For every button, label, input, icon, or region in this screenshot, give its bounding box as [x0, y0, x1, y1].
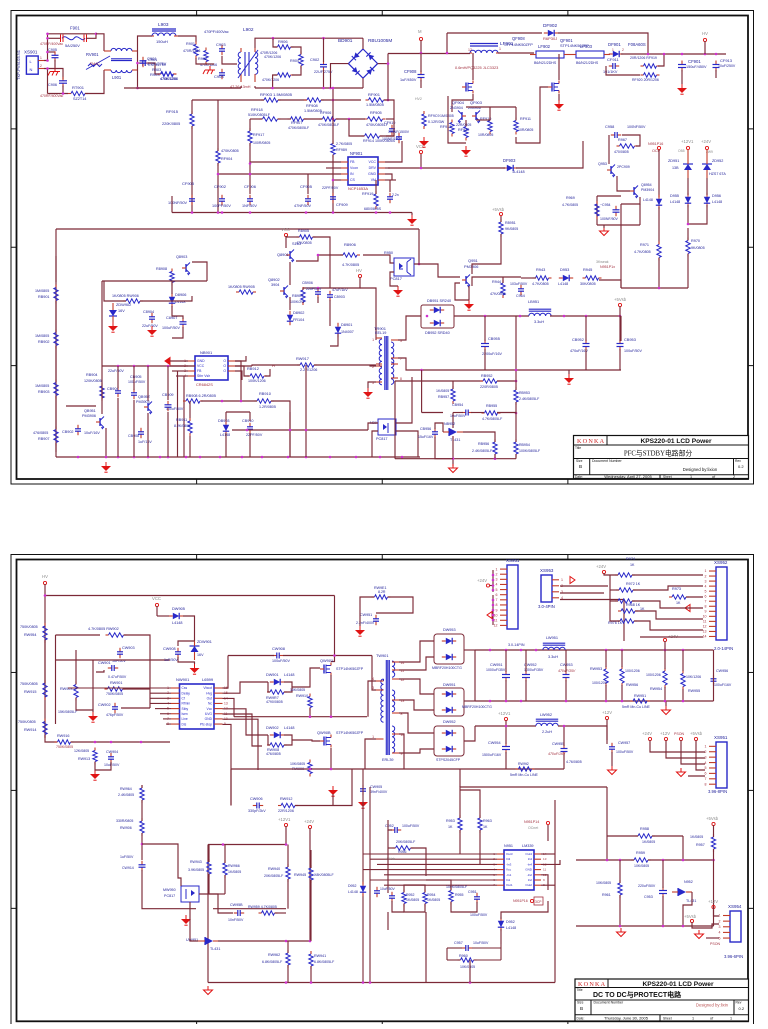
wire dw905 right	[183, 616, 195, 641]
wire xs953 row2	[560, 585, 608, 587]
wire d952 down	[500, 929, 502, 944]
ground driver	[461, 146, 471, 156]
capacitor CW951a	[373, 615, 379, 625]
svg-text:PM3906: PM3906	[464, 264, 478, 269]
power node +24V prot	[304, 819, 314, 829]
transistor QB952 sym	[144, 402, 152, 415]
svg-text:KONKA: KONKA	[577, 438, 605, 445]
wire rw956 up	[621, 650, 623, 667]
svg-text:2.2n: 2.2n	[392, 193, 399, 197]
svg-text:DW952: DW952	[443, 720, 456, 724]
IC NF901 NCP1653A	[348, 157, 378, 185]
svg-text:Designed by:lixin: Designed by:lixin	[696, 1003, 729, 1008]
diode DW952a	[442, 730, 456, 736]
wire r95x tops	[404, 885, 425, 892]
svg-text:HV: HV	[702, 31, 708, 36]
svg-text:CW954: CW954	[488, 741, 501, 745]
wire box rows	[56, 659, 151, 661]
wire bypass drop	[446, 33, 448, 53]
wire cw954 d	[505, 752, 507, 769]
wire pin11 to dw953	[399, 657, 434, 670]
wire NB901 drv	[235, 365, 252, 367]
wire cb909 up	[167, 366, 169, 400]
junction dots fuse	[46, 33, 97, 40]
zener ZDW901	[190, 641, 200, 660]
svg-text:PFC与STDBY电路部分: PFC与STDBY电路部分	[624, 449, 693, 458]
inductor LB951	[529, 309, 551, 316]
wire qb951 col	[101, 366, 103, 386]
svg-text:CF902: CF902	[214, 184, 227, 189]
capacitor C954	[613, 206, 620, 216]
wire driver mid	[465, 120, 467, 126]
wire prot left v	[207, 845, 209, 983]
svg-text:680/0805S: 680/0805S	[364, 207, 382, 211]
svg-text:R974: R974	[626, 557, 635, 561]
wire Q8902 collector up	[289, 262, 291, 285]
wire rw945 links	[310, 850, 312, 868]
junction dots uw951 row	[285, 940, 312, 943]
junction dot CS	[332, 179, 335, 182]
svg-text:MW950: MW950	[163, 888, 176, 892]
svg-text:C953: C953	[644, 895, 653, 899]
ground xs954	[695, 930, 704, 939]
svg-text:CF909: CF909	[336, 202, 348, 207]
svg-text:510K/0805LF: 510K/0805LF	[248, 113, 271, 117]
wire pc902 left top	[368, 423, 378, 430]
svg-text:4: 4	[496, 583, 498, 587]
svg-text:100NF/50V: 100NF/50V	[168, 201, 188, 205]
ground zdw901	[190, 664, 200, 674]
capacitor CF9xx	[387, 193, 393, 203]
svg-text:STP14NK50ZFP: STP14NK50ZFP	[504, 42, 533, 47]
svg-text:10K/1206: 10K/1206	[686, 675, 701, 679]
svg-text:1: 1	[496, 567, 498, 571]
ground PC901	[393, 286, 403, 296]
transistor Q951 sym	[462, 275, 470, 288]
resistor RW908	[267, 743, 287, 747]
svg-text:476pF/50V: 476pF/50V	[106, 713, 124, 717]
svg-text:4.7K/0805LF: 4.7K/0805LF	[482, 417, 503, 421]
capacitor C964	[518, 285, 524, 295]
wire cw952 up	[525, 650, 527, 672]
wire nb901 to rb912	[235, 366, 249, 376]
svg-text:1K/0805: 1K/0805	[406, 898, 419, 902]
power node HB	[492, 207, 505, 216]
wire DF901 out rail	[621, 53, 726, 55]
wire c902b down	[323, 70, 325, 88]
resistor RF905	[365, 117, 386, 121]
svg-text:1000uF/35V: 1000uF/35V	[524, 668, 544, 672]
wire cb953 down	[619, 349, 621, 370]
capacitor CF901	[678, 61, 686, 72]
svg-text:R973: R973	[672, 587, 681, 591]
svg-text:FR104: FR104	[293, 318, 304, 322]
svg-text:3.0-14PIN: 3.0-14PIN	[508, 643, 525, 647]
filter bead LF903	[570, 51, 610, 58]
capacitor C8907	[180, 318, 187, 328]
IC NB901 pin stubs	[184, 359, 235, 378]
resistor R956	[393, 846, 414, 850]
wire CF913 bottom	[715, 70, 717, 78]
wire db903 net	[225, 412, 227, 421]
ground cw906 row	[328, 786, 338, 796]
svg-text:2PC909: 2PC909	[617, 165, 630, 169]
svg-text:RW910: RW910	[296, 694, 308, 698]
wire r8905 right	[313, 237, 330, 288]
wire ic rows fan	[150, 659, 170, 661]
wire box rows2	[75, 650, 77, 660]
svg-text:DC TO DC与PROTECT电路: DC TO DC与PROTECT电路	[593, 990, 682, 999]
svg-text:GND: GND	[525, 868, 533, 872]
svg-text:22uF/50V: 22uF/50V	[108, 369, 124, 373]
wire sec to db95x	[398, 316, 421, 340]
wire ocp col down	[658, 207, 660, 244]
capacitor CW958	[234, 910, 244, 916]
svg-text:NF901: NF901	[350, 151, 363, 156]
wire c901 right	[148, 63, 160, 74]
capacitor CW957	[609, 743, 615, 753]
shunt reg NB952	[443, 428, 463, 436]
svg-text:9K/0805: 9K/0805	[505, 227, 518, 231]
svg-text:D955: D955	[670, 194, 679, 198]
junction dots cap row top	[249, 162, 252, 175]
svg-text:4.7K/0805: 4.7K/0805	[562, 203, 578, 207]
wire feedback long row	[232, 429, 368, 431]
svg-text:DB903: DB903	[218, 419, 230, 423]
wire left stack	[604, 573, 618, 575]
junction dot cb906	[317, 287, 320, 290]
ground QF901 source	[554, 100, 564, 110]
wire bus rw916	[71, 741, 170, 743]
capacitor CW905	[360, 785, 366, 795]
resistor RB908	[183, 399, 203, 403]
svg-text:4.7K/0805 RW902: 4.7K/0805 RW902	[88, 627, 119, 631]
svg-text:CW95B: CW95B	[230, 903, 243, 907]
svg-text:Date:: Date:	[575, 475, 583, 479]
svg-text:C906: C906	[48, 83, 57, 87]
svg-text:QW901: QW901	[320, 658, 333, 663]
wire big box top	[56, 228, 419, 230]
svg-text:9: 9	[705, 610, 707, 614]
wire r970 down	[687, 254, 689, 288]
wire c906 tap	[48, 69, 64, 80]
capacitor CF905	[305, 195, 311, 205]
connector XS951 top	[494, 558, 520, 629]
capacitor CW908	[273, 653, 283, 659]
wire cw957 down	[611, 752, 613, 766]
IC NW901 pin stubs	[167, 686, 228, 726]
wire rail24 right v	[713, 650, 715, 701]
svg-text:2.4K/0805LF: 2.4K/0805LF	[472, 449, 493, 453]
power node +12V conn	[660, 731, 670, 741]
wire drivers bus	[466, 106, 516, 108]
wire top link p2	[459, 769, 461, 787]
ground sec bus	[564, 374, 574, 384]
svg-text:R953: R953	[446, 819, 455, 823]
svg-text:RF914 100K/0805S: RF914 100K/0805S	[363, 139, 396, 143]
junction dots L901	[136, 62, 139, 90]
svg-text:0.47u/275V: 0.47u/275V	[147, 62, 167, 66]
resistor R8951	[499, 219, 503, 237]
svg-text:6: 6	[705, 594, 707, 598]
capacitor CB909	[165, 401, 172, 411]
svg-text:+5Vsb: +5Vsb	[385, 857, 395, 861]
svg-text:CW908: CW908	[272, 646, 285, 651]
svg-text:1N4007: 1N4007	[341, 330, 354, 334]
power node +5Vsb conn	[690, 731, 703, 741]
resistor RF989	[331, 141, 335, 158]
wire fb right v	[515, 316, 517, 377]
wire n952 down	[683, 892, 692, 926]
svg-text:R957: R957	[696, 843, 705, 847]
resistor RF917	[248, 128, 252, 146]
wire q8902 col drop	[329, 300, 331, 326]
capacitor CW909	[175, 648, 181, 658]
wire rect join v	[474, 650, 476, 701]
wire RT901 to L901	[85, 70, 104, 94]
wire prot top rail	[208, 844, 286, 846]
wire rb954 down	[515, 454, 517, 459]
svg-text:Size: Size	[576, 459, 583, 463]
power node PSON conn	[679, 737, 682, 740]
wire snubber right	[658, 54, 664, 66]
power node N951P14	[546, 821, 549, 824]
wire NB901 vcc row	[168, 365, 195, 367]
wire r957 down	[713, 849, 715, 860]
svg-text:FM4C: FM4C	[90, 62, 100, 66]
wire r906 left up	[273, 38, 277, 47]
wire r972 to conn	[633, 586, 703, 590]
svg-text:Sheet: Sheet	[663, 475, 672, 479]
svg-text:C964: C964	[516, 294, 525, 298]
wire cw901 row	[96, 670, 104, 672]
svg-text:Document Number: Document Number	[592, 459, 622, 463]
wire conn wires 4	[696, 740, 705, 770]
wire r971 down	[658, 258, 660, 288]
svg-text:220R/0805: 220R/0805	[480, 385, 498, 389]
svg-text:RW915: RW915	[24, 690, 37, 694]
wire dw951 out	[464, 700, 475, 702]
resistor R959	[631, 858, 651, 862]
resistor R976	[617, 619, 637, 623]
wire opto down row	[199, 894, 218, 909]
svg-text:Sheet: Sheet	[663, 1017, 672, 1021]
svg-text:Q8954: Q8954	[641, 183, 652, 187]
connector XS955	[705, 735, 728, 794]
wire ocp col up	[658, 150, 660, 197]
svg-text:Out1: Out1	[506, 883, 513, 887]
wire gate2 join	[284, 735, 292, 745]
svg-text:470uF/16V: 470uF/16V	[548, 752, 566, 756]
svg-text:KONKA: KONKA	[578, 981, 606, 988]
wire gate2 to q	[292, 740, 320, 741]
wire cw953 up	[565, 650, 567, 672]
svg-text:100uF/50V: 100uF/50V	[272, 659, 290, 663]
resistor RW902	[106, 633, 127, 637]
svg-text:R968 1K: R968 1K	[626, 603, 641, 607]
svg-text:RT901: RT901	[72, 85, 85, 90]
wire q951 up	[472, 264, 490, 274]
diode pair DW952	[434, 726, 464, 756]
resistor RW914	[43, 719, 47, 738]
wire xs951 node link	[490, 585, 494, 587]
ground CF901	[677, 84, 687, 94]
svg-text:In1: In1	[506, 878, 511, 882]
wire r955 top	[426, 880, 451, 890]
capacitor CW952	[522, 671, 530, 682]
svg-text:3CP: 3CP	[535, 900, 542, 904]
wire cb956 top	[435, 423, 443, 432]
svg-text:LB951: LB951	[528, 299, 539, 304]
resistor RW954	[43, 623, 47, 643]
svg-text:XS954: XS954	[728, 904, 742, 909]
svg-text:750K/0805: 750K/0805	[20, 625, 38, 629]
coil LF901	[470, 50, 498, 53]
svg-text:In2: In2	[528, 878, 533, 882]
diode DW952b	[442, 746, 456, 752]
wire rb911 down	[189, 436, 191, 457]
svg-text:750K/0805: 750K/0805	[18, 720, 36, 724]
wire fb row377 right	[497, 380, 516, 382]
wire DF903 right	[516, 141, 583, 168]
wire snubber left	[606, 66, 640, 75]
svg-text:2.2nF/400V: 2.2nF/400V	[356, 621, 375, 625]
svg-text:R906: R906	[278, 39, 288, 44]
diode DW951b	[442, 707, 456, 713]
junction dots xs951 bottom	[492, 599, 495, 622]
wire snub loop	[388, 597, 413, 613]
resistor RB903	[54, 380, 58, 399]
svg-text:B6/N21/2DHS: B6/N21/2DHS	[576, 61, 599, 65]
svg-text:3.96-6PIN: 3.96-6PIN	[724, 954, 743, 959]
svg-text:L4148: L4148	[506, 926, 516, 930]
svg-text:1K: 1K	[483, 825, 488, 829]
wire RF989 down	[332, 155, 334, 213]
resistor RF906	[320, 117, 339, 121]
svg-text:16V: 16V	[197, 653, 204, 657]
wire fuse loop top	[48, 33, 97, 35]
resistor R953	[458, 815, 462, 833]
wire zdw cluster	[104, 281, 126, 301]
wire r958 drop	[606, 787, 608, 836]
svg-text:VCC: VCC	[281, 227, 290, 232]
svg-text:2: 2	[705, 574, 707, 578]
svg-text:R960: R960	[459, 954, 468, 958]
svg-text:10nF/50V: 10nF/50V	[228, 918, 244, 922]
wire pc902 right bot	[396, 431, 418, 457]
svg-text:47K/0805: 47K/0805	[296, 241, 312, 245]
wire box L6599 left	[55, 635, 57, 724]
svg-text:RF904: RF904	[221, 157, 232, 161]
wire right v 926	[713, 860, 715, 926]
svg-text:750K/0805: 750K/0805	[20, 682, 38, 686]
wire tr901 pin5 gnd	[368, 382, 376, 388]
svg-text:RF905: RF905	[370, 110, 382, 115]
mosfet QF902	[462, 81, 473, 94]
svg-text:RB952: RB952	[481, 374, 493, 378]
svg-text:R956: R956	[398, 850, 406, 854]
svg-text:CF911: CF911	[607, 57, 619, 62]
svg-text:C901: C901	[147, 56, 157, 61]
wire hv rail right	[45, 595, 335, 597]
svg-text:6.8K/0805LF: 6.8K/0805LF	[314, 960, 335, 964]
wire rail12 right	[558, 726, 607, 740]
capacitor CB953	[617, 340, 624, 351]
svg-text:1K/0805: 1K/0805	[642, 840, 655, 844]
svg-text:8.2R: 8.2R	[378, 590, 386, 594]
wire r8905 left	[286, 236, 299, 238]
zener ZD951	[683, 150, 693, 178]
svg-text:100K/2W: 100K/2W	[290, 300, 305, 304]
wire nw901 vboot	[223, 656, 229, 689]
wire 5vsb right down	[713, 825, 715, 837]
svg-text:ZDW901: ZDW901	[197, 640, 212, 644]
resistor RF903	[261, 98, 281, 102]
wire r906 to r904	[291, 47, 301, 54]
svg-text:1K: 1K	[448, 825, 453, 829]
wire L902 top right	[255, 38, 273, 48]
wire gate1 box	[268, 682, 270, 692]
wire 12v node down	[505, 720, 507, 726]
svg-text:1K/0805: 1K/0805	[228, 870, 241, 874]
svg-text:RF917: RF917	[253, 133, 264, 137]
svg-text:L4148: L4148	[348, 890, 358, 894]
wire qb952 up	[147, 366, 149, 401]
svg-text:470K/1206: 470K/1206	[264, 55, 281, 59]
svg-text:In3: In3	[506, 857, 511, 861]
wire r958 right	[652, 835, 683, 837]
diode DF901	[609, 51, 623, 57]
svg-text:DW902: DW902	[266, 726, 279, 730]
svg-text:RW951: RW951	[634, 694, 646, 698]
svg-text:D956: D956	[712, 194, 721, 198]
svg-text:+24V: +24V	[701, 139, 711, 144]
wire NF901 CS row	[333, 179, 341, 181]
wire rw955 down	[682, 689, 684, 701]
svg-text:DW901: DW901	[266, 673, 279, 677]
wire rw940 d	[287, 879, 289, 909]
svg-text:100K/0805LF: 100K/0805LF	[446, 885, 468, 889]
svg-text:6.8K/0805LF: 6.8K/0805LF	[262, 960, 283, 964]
svg-text:C8904: C8904	[143, 310, 154, 314]
wire RF903 to RF908	[278, 99, 307, 101]
svg-text:14: 14	[703, 635, 707, 639]
transistor QF904 sym	[458, 111, 466, 124]
resistor RW944	[223, 860, 227, 878]
fuse F901	[61, 35, 87, 43]
svg-text:1: 1	[40, 56, 42, 60]
title block page 1 text	[575, 438, 744, 479]
svg-text:RF907: RF907	[291, 121, 302, 125]
svg-text:DF901: DF901	[608, 42, 621, 47]
junction dot fb	[420, 369, 517, 415]
title block page 2 text	[577, 981, 745, 1021]
svg-text:7: 7	[496, 598, 498, 602]
svg-text:3.9K/0805: 3.9K/0805	[188, 868, 204, 872]
connector XS953	[538, 568, 563, 609]
svg-text:DW905: DW905	[172, 606, 185, 611]
wire drivers bus drop2	[515, 107, 517, 120]
svg-text:9: 9	[496, 608, 498, 612]
wire nb902 row	[105, 428, 107, 457]
capacitor C957	[462, 945, 472, 951]
svg-text:1: 1	[499, 47, 501, 51]
wire rail281	[102, 280, 207, 282]
offpage arrow xs951	[487, 612, 492, 619]
resistor RW962	[286, 950, 290, 968]
junction dots cap row	[191, 211, 392, 214]
svg-text:STPS2045CFP: STPS2045CFP	[436, 758, 461, 762]
